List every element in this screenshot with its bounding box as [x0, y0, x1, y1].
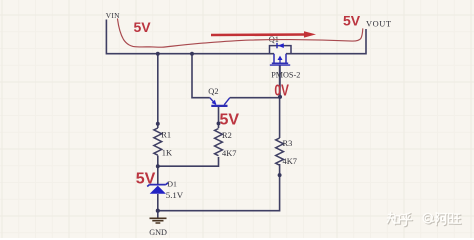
- svg-text:5V: 5V: [220, 112, 240, 129]
- svg-text:Q2: Q2: [208, 87, 218, 96]
- svg-text:5V: 5V: [136, 170, 156, 187]
- svg-text:5V: 5V: [343, 13, 361, 29]
- svg-text:4K7: 4K7: [222, 149, 236, 158]
- svg-text:4K7: 4K7: [283, 157, 297, 166]
- svg-text:R2: R2: [222, 131, 232, 140]
- svg-text:R1: R1: [161, 131, 171, 140]
- svg-text:VOUT: VOUT: [366, 20, 392, 29]
- svg-text:5V: 5V: [134, 19, 152, 35]
- svg-text:PMOS-2: PMOS-2: [271, 71, 300, 80]
- svg-text:5.1V: 5.1V: [166, 190, 184, 200]
- svg-text:D1: D1: [167, 180, 177, 189]
- svg-text:0V: 0V: [274, 82, 289, 99]
- svg-text:R3: R3: [283, 139, 293, 148]
- svg-text:GND: GND: [149, 228, 167, 237]
- svg-text:1K: 1K: [162, 148, 172, 157]
